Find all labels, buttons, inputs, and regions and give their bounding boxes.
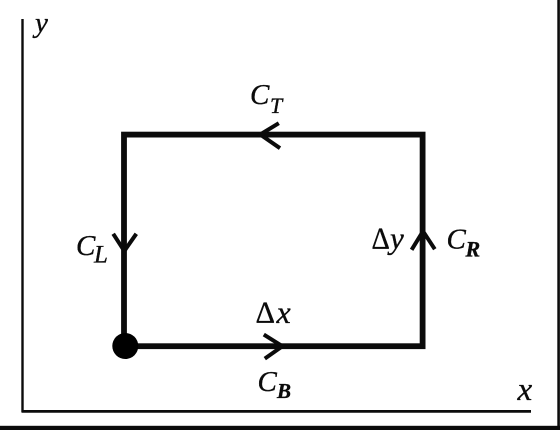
arrow on C_R (upward): [412, 231, 435, 250]
arrow on C_L (downward): [113, 234, 136, 251]
svg-text:x: x: [517, 372, 533, 408]
svg-text:R: R: [465, 237, 481, 262]
y-axis: [21, 19, 23, 412]
svg-text:C: C: [447, 224, 467, 256]
svg-text:C: C: [76, 230, 96, 262]
bottom page-edge bar: [0, 426, 560, 430]
svg-text:L: L: [93, 242, 108, 269]
svg-text:B: B: [276, 379, 291, 403]
arrow on C_B (rightward): [264, 335, 283, 359]
svg-text:Δ: Δ: [256, 295, 276, 330]
svg-text:T: T: [270, 93, 284, 118]
node dot (start point): [112, 333, 138, 359]
right page-edge line: [557, 0, 560, 427]
arrow on C_T (leftward): [260, 123, 280, 148]
x-axis: [22, 410, 532, 413]
svg-text:C: C: [258, 366, 278, 398]
svg-text:x: x: [276, 294, 291, 330]
contour rectangle: [124, 135, 423, 347]
svg-text:y: y: [387, 221, 404, 256]
svg-text:y: y: [32, 7, 48, 39]
svg-text:Δ: Δ: [372, 220, 390, 255]
svg-text:C: C: [250, 79, 270, 111]
